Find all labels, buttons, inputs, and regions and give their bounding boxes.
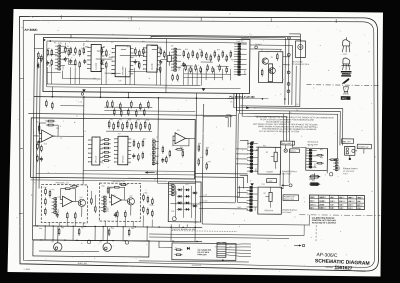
resistor R242 <box>102 147 110 149</box>
resistor R236 <box>51 102 53 110</box>
IC U101 <box>55 45 65 71</box>
svg-text:C1: C1 <box>49 55 51 57</box>
capacitor C102 <box>69 59 72 64</box>
svg-text:J7: J7 <box>250 180 252 182</box>
resistor R129 <box>230 50 232 58</box>
wire <box>190 186 192 218</box>
svg-text:R49: R49 <box>146 119 149 121</box>
wire <box>184 76 223 78</box>
trunk wire <box>82 97 85 178</box>
wire <box>195 93 197 98</box>
junction <box>84 226 85 227</box>
junction <box>49 40 51 42</box>
wire <box>104 106 152 108</box>
resistor R418 <box>142 205 144 213</box>
wire <box>102 227 104 241</box>
terminal circle <box>287 53 290 56</box>
capacitor C204 <box>37 139 40 144</box>
left channel amp block <box>41 184 87 222</box>
component reference labels <box>35 38 346 250</box>
svg-text:MODEL: MODEL <box>325 267 334 269</box>
wire <box>170 203 200 205</box>
zone divider dash-dot line <box>299 214 380 217</box>
wire <box>50 54 57 56</box>
wire <box>256 146 258 148</box>
lamp symbol <box>329 173 332 176</box>
svg-text:C8: C8 <box>225 59 227 61</box>
meter lamp box <box>290 149 300 153</box>
package drawing Q pkg2 <box>341 58 350 70</box>
svg-text:LA1240: LA1240 <box>151 63 154 70</box>
wire <box>83 43 85 46</box>
resistor R119 <box>187 52 189 60</box>
wire <box>203 116 232 118</box>
svg-text:J6: J6 <box>308 145 310 147</box>
wire <box>125 68 127 85</box>
wire <box>72 189 79 202</box>
transistor Q301 <box>271 147 278 168</box>
wire <box>236 148 248 150</box>
wire <box>74 220 76 226</box>
resistor R102 <box>51 49 53 57</box>
wire <box>185 137 195 139</box>
wire <box>99 87 101 92</box>
capacitor C401 <box>56 213 59 218</box>
svg-text:10.5V: 10.5V <box>319 201 325 203</box>
svg-text:R60: R60 <box>206 147 209 149</box>
trunk wire <box>195 98 196 224</box>
wire <box>39 250 99 253</box>
resistor R214 <box>117 120 119 129</box>
main board outline <box>31 118 196 179</box>
bottom connector strip <box>33 240 149 257</box>
wire <box>285 145 287 149</box>
wire <box>183 68 185 85</box>
calibration notes text <box>312 217 337 225</box>
lamp box <box>267 179 277 183</box>
resistor R429 <box>174 254 182 256</box>
zone tick <box>200 17 202 21</box>
resistor R221 <box>149 123 151 132</box>
resistor R220 <box>144 120 146 129</box>
wire <box>146 227 148 241</box>
resistor R2251 <box>142 151 144 159</box>
wire <box>79 67 81 84</box>
wire <box>120 54 144 56</box>
wire <box>129 70 147 72</box>
wire <box>326 149 328 173</box>
terminal circle <box>287 83 290 86</box>
wire <box>170 224 172 227</box>
svg-text:8.8: 8.8 <box>339 205 342 207</box>
resistor R234 <box>165 156 167 164</box>
wire <box>226 115 231 127</box>
svg-text:R29: R29 <box>231 59 234 61</box>
wire <box>237 196 247 198</box>
junction <box>110 226 111 227</box>
wire <box>47 72 61 74</box>
wire <box>151 220 153 227</box>
svg-text:R9: R9 <box>103 46 105 48</box>
svg-text:J5: J5 <box>250 143 252 145</box>
wire <box>249 45 292 105</box>
wire <box>44 226 46 240</box>
wire <box>201 69 203 86</box>
svg-text:R47: R47 <box>137 119 140 121</box>
svg-text:4.5: 4.5 <box>348 200 351 203</box>
junction <box>44 39 46 41</box>
resistor R252 <box>127 108 129 116</box>
svg-text:R99: R99 <box>131 228 134 230</box>
resistor R163 <box>200 66 202 73</box>
capacitor C202 <box>132 153 135 158</box>
wire <box>72 226 74 240</box>
feedback wire <box>39 123 46 134</box>
resistor R131 <box>261 69 263 77</box>
svg-text:J12: J12 <box>229 246 232 248</box>
svg-text:2.2: 2.2 <box>330 201 333 203</box>
connector J404 <box>217 243 226 258</box>
zone tick <box>270 18 272 22</box>
svg-text:Z401: Z401 <box>58 209 60 213</box>
wire <box>161 59 167 61</box>
IC U106 <box>234 43 247 76</box>
resistor R110 <box>105 49 107 57</box>
resistor R127 <box>222 50 224 58</box>
resistor R402 <box>49 190 51 198</box>
wire <box>196 68 198 85</box>
transistor Q401 <box>78 199 85 206</box>
resistor R428 <box>174 249 182 251</box>
junction <box>182 227 183 228</box>
zone tick <box>60 15 62 19</box>
svg-text:C+: C+ <box>310 204 312 206</box>
resistor R141 <box>68 49 70 57</box>
svg-text:Z403: Z403 <box>176 191 178 195</box>
svg-text:D2: D2 <box>254 108 256 110</box>
resistor R165 <box>212 66 214 73</box>
diode D401 <box>184 188 190 191</box>
wire <box>184 73 231 75</box>
wire <box>186 224 188 227</box>
svg-text:J301: J301 <box>255 168 257 172</box>
junction <box>60 225 61 226</box>
svg-text:R12: R12 <box>127 46 130 48</box>
fanout wire <box>226 246 251 249</box>
wire <box>194 227 196 241</box>
resistor R112 <box>135 47 137 55</box>
svg-text:AM MODULE: AM MODULE <box>307 141 319 144</box>
svg-text:1.4: 1.4 <box>330 203 333 206</box>
svg-text:R65: R65 <box>320 149 323 151</box>
svg-text:6.3: 6.3 <box>339 201 342 203</box>
svg-text:U101: U101 <box>58 43 62 45</box>
resistor R125 <box>214 50 216 58</box>
transistor Q101 <box>262 58 268 64</box>
svg-text:IC1: IC1 <box>54 42 57 44</box>
bus wire <box>33 240 202 242</box>
transistor Q403 <box>127 198 134 205</box>
svg-text:R13: R13 <box>134 55 137 57</box>
resistor R219 <box>140 122 142 131</box>
junction <box>100 96 102 98</box>
wire <box>130 205 132 215</box>
wire <box>64 59 77 65</box>
svg-text:1.1: 1.1 <box>348 208 351 210</box>
trunk wire <box>39 58 40 188</box>
resistor R424 <box>58 228 60 236</box>
resistor R226 <box>175 148 184 150</box>
svg-text:2.0: 2.0 <box>348 205 351 207</box>
wire <box>70 67 72 84</box>
stack Z402 <box>101 196 110 213</box>
long rail wire <box>28 114 236 116</box>
diode D101 <box>37 62 40 68</box>
junction <box>83 96 85 98</box>
svg-text:UPC202: UPC202 <box>122 156 124 163</box>
resistor R306 <box>316 154 324 156</box>
junction <box>222 259 224 261</box>
diode D408 <box>192 192 198 195</box>
junction <box>158 226 159 227</box>
ground <box>202 89 206 92</box>
wire <box>201 61 213 63</box>
svg-text:J10: J10 <box>51 241 54 243</box>
resistor R225 <box>137 153 139 161</box>
wire <box>349 155 351 158</box>
wire <box>116 218 118 226</box>
resistor R419 <box>147 207 149 215</box>
trunk wire <box>234 99 237 203</box>
junction <box>284 98 286 100</box>
phone jack J401 <box>54 240 63 251</box>
resistor R144 <box>172 74 174 81</box>
resistor R404 <box>44 208 46 216</box>
capacitor C105 <box>159 60 162 65</box>
svg-text:(NO NAME): (NO NAME) <box>282 211 291 214</box>
PLL module board outline <box>43 37 250 93</box>
resistor R251 <box>120 109 122 117</box>
resistor R108 <box>79 61 81 69</box>
resistor R223 <box>138 141 140 149</box>
wire <box>94 226 96 240</box>
connector J203 <box>152 140 158 166</box>
wire <box>159 241 172 248</box>
svg-text:A-2: A-2 <box>357 200 360 203</box>
wire <box>106 130 152 132</box>
wire <box>279 171 281 186</box>
dial lamp box <box>281 141 295 145</box>
svg-text:J3: J3 <box>156 137 158 139</box>
resistor R409 <box>107 186 109 194</box>
connector J302 <box>306 149 317 169</box>
svg-text:S1: S1 <box>175 247 177 249</box>
harness wire <box>236 93 340 145</box>
wire <box>58 223 60 226</box>
wire <box>187 68 189 85</box>
capacitor C203 <box>161 158 164 163</box>
terminal circle <box>255 46 258 49</box>
svg-text:DIAL LAMP: DIAL LAMP <box>282 142 292 145</box>
wire <box>195 177 244 188</box>
svg-text:R35: R35 <box>44 144 47 146</box>
resistor R143 <box>159 66 161 73</box>
resistor R117 <box>163 51 165 59</box>
test point arrow <box>309 175 321 178</box>
svg-text:R43: R43 <box>119 119 122 121</box>
wire <box>199 201 235 203</box>
package drawing Q pkg1 <box>342 37 350 55</box>
wire <box>104 110 195 113</box>
feedback wire <box>60 189 63 200</box>
junction <box>128 97 130 99</box>
svg-text:J303: J303 <box>255 207 257 211</box>
resistor R425 <box>78 228 80 236</box>
wire <box>63 71 101 79</box>
wire <box>31 180 168 181</box>
wire <box>47 87 241 89</box>
annotation arrow <box>294 244 305 247</box>
svg-text:PS1: PS1 <box>263 145 266 147</box>
trunk wire <box>236 113 239 202</box>
svg-text:IC4: IC4 <box>142 41 145 43</box>
wire <box>90 191 92 197</box>
zone tick <box>20 147 24 149</box>
wire <box>182 186 184 218</box>
svg-text:Q5: Q5 <box>266 152 268 154</box>
svg-text:R92: R92 <box>149 205 152 207</box>
resistor R114 <box>143 47 145 55</box>
resistor R254 <box>143 108 145 116</box>
package label BCE <box>341 96 351 100</box>
thermal switch <box>172 217 176 221</box>
diode D402 <box>177 195 183 198</box>
notes text block <box>253 116 335 134</box>
wire <box>149 237 289 238</box>
svg-text:IS IT AS OUTPUT OF MODULE AT S: IS IT AS OUTPUT OF MODULE AT SYSTEM <box>259 130 299 133</box>
junction <box>52 225 53 226</box>
zone tick <box>335 19 337 23</box>
wire <box>74 67 76 84</box>
wire <box>178 224 180 227</box>
op-amp U401 <box>60 196 75 207</box>
resistor R224 <box>142 139 144 147</box>
resistor R167 <box>226 66 228 73</box>
resistor R107 <box>74 59 76 67</box>
capacitor C104 <box>134 59 137 64</box>
wire <box>235 93 237 98</box>
svg-text:P4: P4 <box>296 110 298 112</box>
svg-text:PWR AMP R CH: PWR AMP R CH <box>112 180 126 183</box>
svg-text:0.8: 0.8 <box>330 208 333 210</box>
resistor R115 <box>138 61 140 69</box>
svg-text:J11: J11 <box>99 242 102 244</box>
svg-text:ADJUSTED AT A OUTPUT: ADJUSTED AT A OUTPUT <box>312 221 337 224</box>
svg-text:TP1: TP1 <box>312 174 315 176</box>
svg-text:TUNER: TUNER <box>266 171 273 173</box>
svg-text:U105: U105 <box>179 66 181 70</box>
wire <box>109 56 112 58</box>
capacitor C106 <box>182 62 185 67</box>
capacitor C402 <box>114 212 117 217</box>
IC U202 <box>114 136 131 165</box>
section divider <box>165 39 168 93</box>
wire <box>355 150 357 152</box>
wire <box>236 158 248 160</box>
svg-text:R5: R5 <box>73 55 75 57</box>
wire <box>279 141 281 147</box>
wire <box>121 48 126 50</box>
svg-text:IC2: IC2 <box>86 40 89 42</box>
svg-text:R18: R18 <box>185 49 188 51</box>
junction <box>158 97 160 99</box>
svg-text:R72: R72 <box>52 189 55 191</box>
svg-text:L-1561: L-1561 <box>24 269 31 271</box>
oscillator transistor <box>268 64 272 82</box>
wire <box>288 111 290 141</box>
svg-text:Z402: Z402 <box>107 208 109 212</box>
wire <box>150 36 285 104</box>
bus wire <box>34 97 234 99</box>
svg-text:LA1230: LA1230 <box>95 63 98 70</box>
resistor R308 <box>329 159 337 161</box>
fanout wire <box>226 252 251 253</box>
terminal circle <box>287 71 290 74</box>
wire <box>281 173 284 189</box>
feedback wire <box>173 136 189 146</box>
resistor R222 <box>133 139 135 147</box>
IC U204 <box>88 137 103 165</box>
wire <box>250 48 282 50</box>
wire <box>121 187 128 200</box>
svg-text:R54: R54 <box>152 139 155 141</box>
connector J305 <box>333 158 341 171</box>
wire <box>299 34 301 41</box>
inner border frame <box>23 20 374 267</box>
svg-text:AP-306/C: AP-306/C <box>24 28 38 32</box>
junction <box>170 227 171 228</box>
wire <box>202 214 309 225</box>
junction <box>112 240 113 241</box>
resistor R111 <box>105 61 107 69</box>
wire <box>105 72 121 74</box>
trunk wire <box>157 98 160 179</box>
resistor R406 <box>70 185 79 187</box>
IC U104 <box>143 45 161 72</box>
wire <box>151 45 157 47</box>
junction <box>44 225 45 226</box>
junction <box>72 226 73 227</box>
resistor R417 <box>147 195 149 203</box>
resistor R415 <box>124 210 126 218</box>
svg-text:J1: J1 <box>84 131 86 133</box>
wire internal rail <box>47 84 201 85</box>
resistor R151 <box>40 54 42 62</box>
junction <box>100 240 101 241</box>
wire <box>289 33 300 35</box>
svg-text:J2: J2 <box>95 137 97 139</box>
svg-text:PWR 120V: PWR 120V <box>197 254 207 256</box>
capacitor C103 <box>100 60 103 65</box>
junction <box>134 226 135 227</box>
resistor R240 <box>102 139 110 141</box>
terminal circle <box>287 90 290 93</box>
connector J301 <box>247 142 258 173</box>
svg-text:R41: R41 <box>110 119 113 121</box>
wire <box>246 208 248 211</box>
wire <box>181 65 193 67</box>
capacitor C201 <box>40 156 43 161</box>
